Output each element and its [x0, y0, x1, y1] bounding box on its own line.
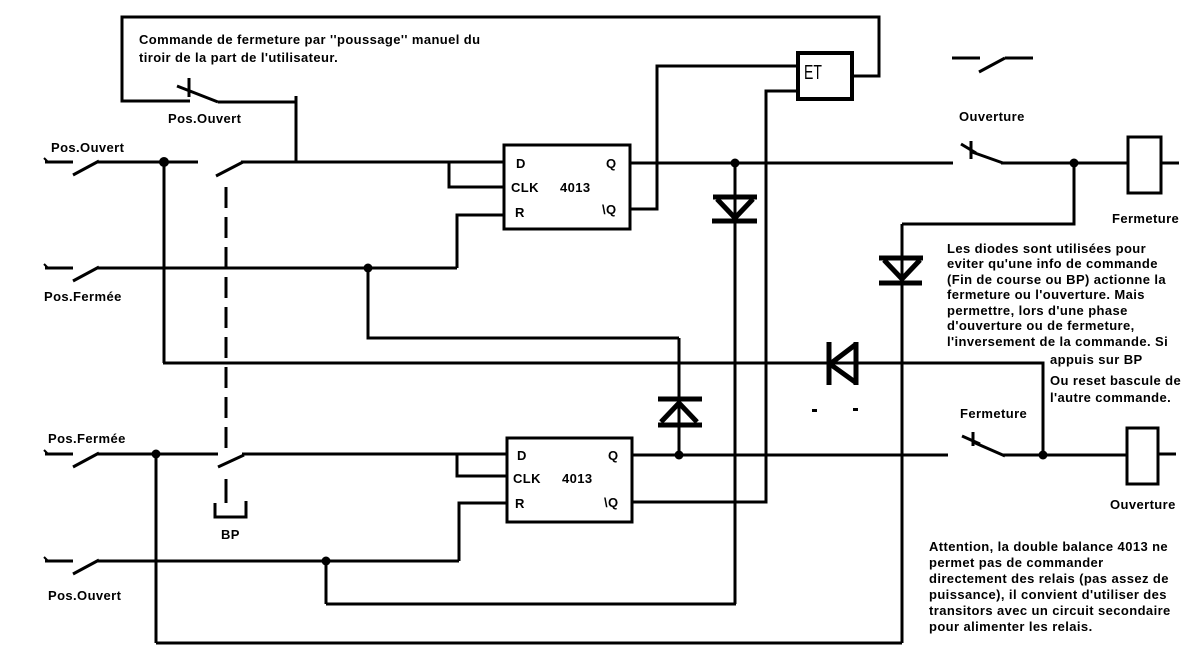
flip-flop U1 4013: [504, 145, 630, 229]
relay coil Fermeture: [1128, 137, 1161, 193]
svg-text:appuis sur BP: appuis sur BP: [1050, 352, 1143, 367]
svg-text:Ouverture: Ouverture: [959, 109, 1025, 124]
svg-text:Commande de fermeture par ''po: Commande de fermeture par ''poussage'' m…: [139, 32, 480, 47]
flip-flop U2 4013: [507, 438, 632, 522]
text note reset: [1050, 373, 1181, 405]
svg-text:\Q: \Q: [602, 202, 617, 217]
svg-text:Ouverture: Ouverture: [1110, 497, 1176, 512]
wire bottom of D1 left to row3 branch: [326, 603, 736, 606]
svg-text:Attention, la double balance 4: Attention, la double balance 4013 ne: [929, 539, 1168, 554]
svg-text:permet pas de commander: permet pas de commander: [929, 555, 1104, 570]
svg-text:fermeture ou l'ouverture. Mais: fermeture ou l'ouverture. Mais: [947, 287, 1145, 302]
switch Pos.Ouvert row1 (fin de course): [44, 158, 99, 175]
svg-text:permettre, lors d'une phase: permettre, lors d'une phase: [947, 303, 1128, 318]
wire \Q2 up to ET second input: [632, 91, 796, 502]
wire switch to relay Ouverture: [1003, 454, 1127, 457]
svg-text:R: R: [515, 496, 525, 511]
wire R2 input: [459, 503, 507, 561]
wire row2 to D2 input: [242, 453, 507, 456]
gate ET (AND): [798, 53, 852, 99]
svg-text:Q: Q: [606, 156, 617, 171]
wire row1 to D input: [241, 161, 504, 164]
node junction row3: [322, 557, 331, 566]
wire junction down to diode D4 top: [902, 163, 1074, 224]
comment text top: [139, 32, 480, 65]
node junction before relay Fermeture: [1070, 159, 1079, 168]
svg-text:pour alimenter les relais.: pour alimenter les relais.: [929, 619, 1093, 634]
switch Pos.Ouvert row3: [44, 557, 99, 574]
text note attention: [929, 539, 1171, 634]
svg-text:Pos.Fermée: Pos.Fermée: [44, 289, 122, 304]
wire Q1 output to Ouverture switch: [630, 162, 953, 165]
diode D3 (pointing left): [829, 342, 856, 385]
relay coil Ouverture: [1127, 428, 1158, 484]
svg-text:Ou reset bascule de: Ou reset bascule de: [1050, 373, 1181, 388]
switch Pos.Fermee row1: [44, 264, 99, 281]
svg-text:tiroir de la part de l'utilisa: tiroir de la part de l'utilisateur.: [139, 50, 338, 65]
wire top feedback loop from ET output: [122, 17, 879, 101]
svg-text:Les diodes sont utilisées pour: Les diodes sont utilisées pour: [947, 241, 1146, 256]
svg-text:Pos.Ouvert: Pos.Ouvert: [168, 111, 242, 126]
svg-text:(Fin de course ou BP) actionne: (Fin de course ou BP) actionne la: [947, 272, 1166, 287]
wire bottom long line: [156, 642, 902, 645]
wire junction row1 down to long mid line: [163, 162, 166, 363]
svg-text:directement des relais (pas as: directement des relais (pas assez de: [929, 571, 1169, 586]
svg-text:l'autre commande.: l'autre commande.: [1050, 390, 1171, 405]
wire relay Ouverture right stub: [1158, 453, 1176, 456]
wire junction row3 down to D1 bottom line: [325, 561, 328, 604]
node junction row1: [159, 157, 169, 167]
svg-text:R: R: [515, 205, 525, 220]
svg-text:Pos.Ouvert: Pos.Ouvert: [51, 140, 125, 155]
node junction diode D1 anode on Q1 line: [731, 159, 740, 168]
svg-text:l'inversement de la commande.: l'inversement de la commande. Si: [947, 334, 1168, 349]
wire \Q1 up to ET input: [630, 66, 796, 209]
wire junction down and right to upward diode: [368, 268, 679, 338]
wire row3 to R2 branch: [97, 560, 459, 563]
svg-text:Pos.Fermée: Pos.Fermée: [48, 431, 126, 446]
wire row Pos.Fermee to R branch: [97, 267, 457, 270]
wire row2 to linked switch: [97, 453, 218, 456]
node junction Pos.Fermee: [364, 264, 373, 273]
wire switch to relay Fermeture: [1001, 162, 1128, 165]
wire Q2 output to Fermeture switch: [632, 454, 948, 457]
svg-text:eviter qu'une info de commande: eviter qu'une info de commande: [947, 256, 1158, 271]
diode D1 (down): [712, 163, 757, 604]
switch Fermeture (relay contact): [962, 432, 1005, 456]
link dashed mechanical line: [225, 187, 228, 503]
diode D2 (up): [658, 338, 702, 455]
svg-text:Fermeture: Fermeture: [1112, 211, 1179, 226]
svg-text:ET: ET: [804, 60, 822, 83]
svg-text:puissance), il convient d'util: puissance), il convient d'utiliser des: [929, 587, 1167, 602]
switch Ouverture (relay contact): [961, 141, 1003, 163]
text note diodes: [947, 241, 1168, 367]
svg-text:Q: Q: [608, 448, 619, 463]
svg-text:Pos.Ouvert: Pos.Ouvert: [48, 588, 122, 603]
svg-text:CLK: CLK: [513, 471, 541, 486]
stray mark 2: [853, 408, 858, 411]
svg-text:D: D: [517, 448, 527, 463]
stray mark 1: [812, 409, 817, 412]
node junction before relay Ouverture: [1039, 451, 1048, 460]
wire long mid line: [163, 363, 1043, 455]
switch Pos.Ouvert (upper manual branch): [177, 78, 218, 102]
wire D to CLK jog: [449, 162, 504, 187]
switch linked row1: [216, 162, 243, 176]
svg-text:d'ouverture ou de fermeture,: d'ouverture ou de fermeture,: [947, 318, 1135, 333]
svg-text:4013: 4013: [560, 180, 591, 195]
svg-text:CLK: CLK: [511, 180, 539, 195]
switch floating top right: [952, 58, 1033, 72]
push button BP: [215, 501, 246, 517]
wire from Pos.Fermee row2 junction down to bottom line: [155, 454, 158, 643]
wire R1 input: [457, 215, 504, 268]
wire from upper switch down to main line: [218, 102, 296, 162]
switch Pos.Fermee row2: [44, 450, 99, 467]
svg-text:\Q: \Q: [604, 495, 619, 510]
svg-text:Fermeture: Fermeture: [960, 406, 1027, 421]
switch linked row2: [218, 455, 244, 467]
svg-text:4013: 4013: [562, 471, 593, 486]
wire row1 to linked switch: [97, 161, 198, 164]
node junction row2: [152, 450, 161, 459]
svg-text:transitors avec un circuit sec: transitors avec un circuit secondaire: [929, 603, 1171, 618]
wire D2 to CLK2 jog: [457, 454, 507, 476]
node junction D2 on Q2 line: [675, 451, 684, 460]
svg-text:D: D: [516, 156, 526, 171]
wire nub at corner: [295, 96, 298, 102]
svg-text:BP: BP: [221, 527, 240, 542]
diode D4 (down): [879, 224, 923, 643]
wire relay Fermeture right stub: [1161, 162, 1179, 165]
